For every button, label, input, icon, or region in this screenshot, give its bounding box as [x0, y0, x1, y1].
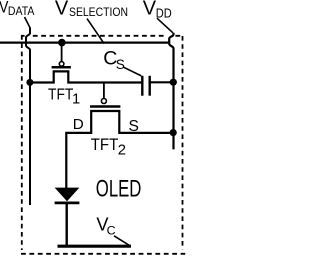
svg-text:DATA: DATA	[8, 4, 35, 18]
cell border dashed top	[21, 35, 182, 37]
TFT2 gate contact circle	[101, 99, 106, 104]
cell border dashed bottom	[21, 253, 185, 255]
OLED cathode lead wire	[65, 203, 67, 246]
leader line V_DD	[157, 18, 173, 33]
leader line V_DATA	[25, 17, 31, 28]
leader line V_SELECTION	[87, 19, 104, 44]
svg-text:2: 2	[118, 143, 126, 159]
svg-text:C: C	[107, 223, 116, 237]
svg-text:OLED: OLED	[96, 177, 142, 203]
TFT2 gate bar	[90, 105, 120, 108]
node: junction dot TFT2 source / V_DD	[170, 129, 177, 136]
wire: C_S right plate to V_DD	[151, 81, 173, 83]
node: junction dot V_DATA / TFT1 source	[26, 79, 33, 86]
leader line V_C	[114, 236, 129, 245]
cell border dashed right	[182, 36, 184, 250]
svg-text:TFT: TFT	[91, 135, 119, 154]
TFT1 gate bar	[52, 66, 71, 69]
OLED cathode bar	[55, 201, 80, 204]
node: junction dot C_S / V_DD	[170, 79, 177, 86]
svg-text:V: V	[143, 0, 157, 19]
TFT2 channel with drain wire to OLED and source wire to V_DD	[66, 111, 171, 188]
svg-text:TFT: TFT	[48, 87, 74, 104]
OLED anode triangle	[55, 188, 80, 202]
wire: V_DD supply line with crossover jog	[169, 33, 173, 150]
wire: V_DATA data line with crossover jog	[26, 28, 30, 206]
TFT1 gate lead wire	[61, 43, 63, 62]
TFT1 gate contact circle	[59, 62, 64, 67]
svg-text:V: V	[55, 0, 69, 19]
TFT2 gate lead wire	[103, 82, 105, 98]
V_C terminal bar	[58, 245, 132, 248]
leader line C_S	[124, 67, 142, 76]
node: junction dot selection line / TFT1 gate	[58, 39, 66, 47]
capacitor C_S left plate	[141, 76, 143, 96]
TFT1 channel with source and drain wires (source to V_DATA, drain to node A)	[30, 71, 141, 82]
svg-text:1: 1	[72, 92, 80, 108]
capacitor C_S right plate	[148, 76, 150, 96]
svg-text:D: D	[73, 116, 84, 133]
svg-text:S: S	[129, 118, 139, 135]
wire: V_SELECTION row line	[0, 41, 168, 43]
svg-text:SELECTION: SELECTION	[69, 5, 128, 19]
svg-text:S: S	[116, 57, 125, 72]
cell border dashed left	[21, 35, 23, 250]
